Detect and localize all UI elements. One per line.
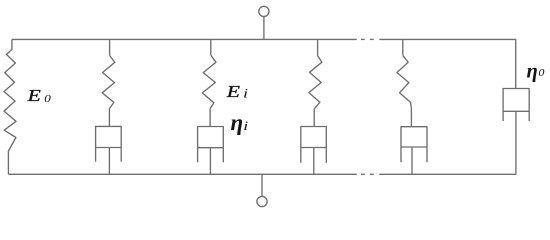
spring (branch 4) [309,56,322,109]
svg-text:0: 0 [44,92,51,104]
svg-text:η: η [231,110,244,135]
top terminal stem wire [263,17,265,40]
svg-text:i: i [243,87,248,101]
dashpot (branch 3) piston [198,147,224,149]
dashpot eta0 bottom rod wire [515,111,517,174]
dashpot eta0 (right edge) cylinder cap [503,89,529,122]
dashpot (branch 2) bottom rod wire [108,148,110,175]
svg-text:E: E [226,83,241,101]
wire spring to dashpot (branch 2) [108,109,110,127]
spring Ei (branch 3) [202,55,216,108]
dashpot (branch 4) cylinder cap [301,127,327,163]
wire top rail dash 1 [361,38,365,40]
wire top rail left segment [12,38,357,40]
wire top rail right segment [379,38,516,40]
top terminal circle [259,6,269,16]
svg-text:i: i [243,119,248,133]
svg-text:E: E [26,87,41,105]
dashpot (branch 4) piston [301,147,327,149]
spring E0 (left edge branch) [4,39,16,174]
svg-text:0: 0 [538,68,544,79]
wire bottom rail dash 2 [370,173,374,175]
branch 3 top wire [210,39,212,55]
dashpot (branch 2) cylinder cap [96,126,122,161]
dashpot (branch 3) bottom rod wire [209,148,211,175]
dashpot (branch 5) cylinder cap [401,127,427,163]
wire bottom rail dash 1 [361,173,365,175]
dashpot (branch 4) bottom rod wire [313,148,315,175]
wire bottom rail left segment [8,173,356,175]
branch 4 top wire [317,39,319,55]
wire spring to dashpot (branch 4) [313,109,315,127]
wire bottom rail right segment [379,173,516,175]
wire spring to dashpot (branch 5) [410,109,412,127]
dashpot eta0 piston [503,110,529,112]
spring (branch 2) [102,56,115,109]
wire spring to dashpot (branch 3) [209,109,211,127]
bottom terminal stem wire [261,174,263,196]
svg-text:η: η [527,61,538,83]
spring (branch 5) [397,55,412,108]
bottom terminal circle [257,196,267,206]
dashpot (branch 2) piston [96,147,122,149]
wire top rail dash 2 [370,38,374,40]
branch 2 top wire [109,39,111,55]
dashpot (branch 5) bottom rod wire [411,147,413,174]
dashpot (branch 5) piston [401,146,427,148]
right branch top wire [515,39,517,88]
branch 5 top wire [402,39,404,55]
dashpot (branch 3) cylinder cap [198,127,224,163]
